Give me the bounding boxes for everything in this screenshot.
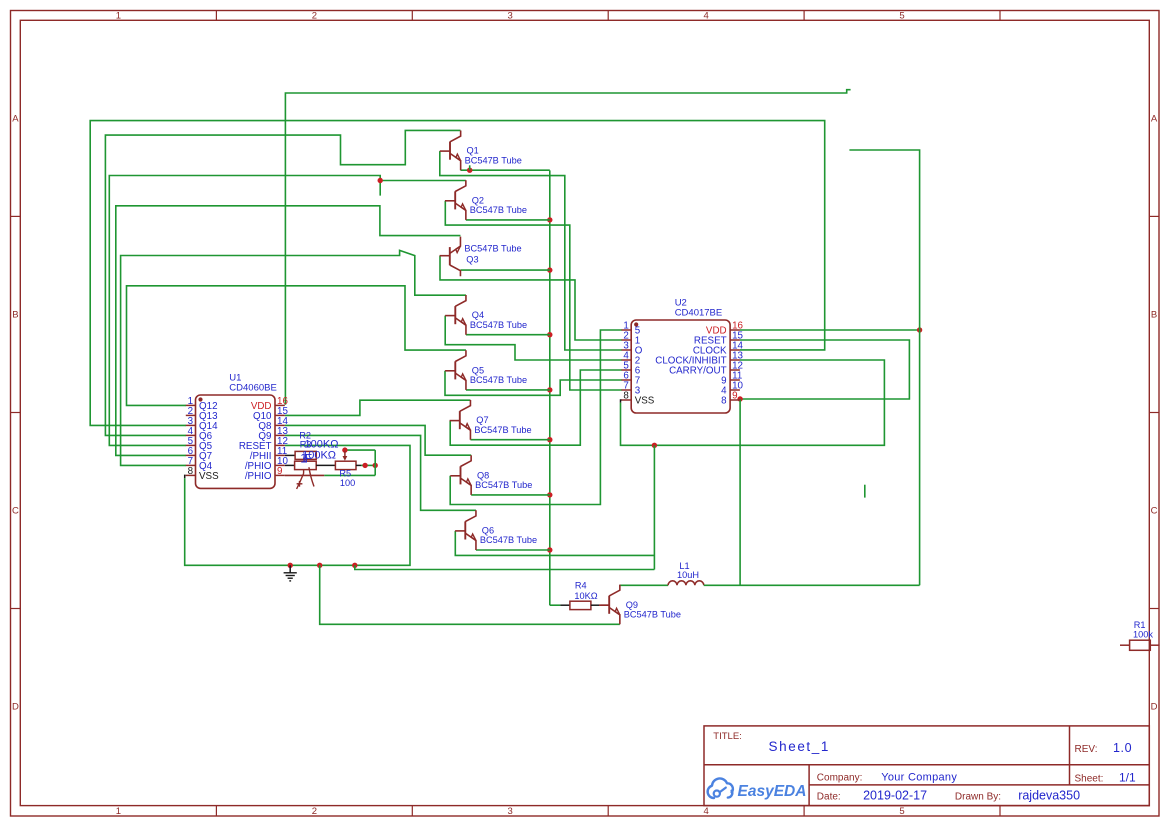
svg-text:Sheet:: Sheet: <box>1075 774 1104 785</box>
svg-text:4: 4 <box>704 806 709 817</box>
svg-text:BC547B Tube: BC547B Tube <box>475 480 532 490</box>
svg-text:BC547B Tube: BC547B Tube <box>464 244 521 254</box>
svg-text:BC547B Tube: BC547B Tube <box>470 375 527 385</box>
svg-text:BC547B Tube: BC547B Tube <box>480 535 537 545</box>
svg-text:EasyEDA: EasyEDA <box>738 783 807 800</box>
svg-text:3: 3 <box>508 10 513 21</box>
svg-text:10KΩ: 10KΩ <box>574 591 597 601</box>
svg-text:R5: R5 <box>339 468 351 478</box>
svg-text:Date:: Date: <box>817 792 841 803</box>
svg-text:Q6: Q6 <box>482 526 494 536</box>
svg-text:Q9: Q9 <box>626 600 638 610</box>
svg-text:Company:: Company: <box>817 773 863 784</box>
svg-text:2: 2 <box>312 10 317 21</box>
svg-text:Q5: Q5 <box>472 365 484 375</box>
svg-text:/PHIO: /PHIO <box>245 471 272 482</box>
svg-text:F: F <box>305 451 312 465</box>
svg-text:BC547B Tube: BC547B Tube <box>465 155 522 165</box>
svg-text:8: 8 <box>721 396 727 407</box>
svg-text:D: D <box>1151 701 1158 712</box>
svg-text:BC547B Tube: BC547B Tube <box>470 320 527 330</box>
svg-text:BC547B Tube: BC547B Tube <box>474 425 531 435</box>
svg-text:5: 5 <box>899 806 904 817</box>
svg-text:10uH: 10uH <box>677 570 699 580</box>
svg-text:R4: R4 <box>575 580 587 590</box>
svg-text:2019-02-17: 2019-02-17 <box>863 789 927 803</box>
svg-text:BC547B Tube: BC547B Tube <box>470 205 527 215</box>
svg-text:Your Company: Your Company <box>881 772 957 784</box>
svg-text:Q3: Q3 <box>466 255 478 265</box>
svg-text:Q2: Q2 <box>472 195 484 205</box>
svg-text:A: A <box>12 113 19 124</box>
svg-text:CARRY/OUT: CARRY/OUT <box>669 366 727 377</box>
svg-text:8: 8 <box>623 390 629 401</box>
svg-text:4: 4 <box>704 10 709 21</box>
svg-text:A: A <box>1151 113 1158 124</box>
svg-text:Q1: Q1 <box>467 146 479 156</box>
svg-text:2: 2 <box>312 806 317 817</box>
svg-text:B: B <box>1151 310 1157 321</box>
svg-text:9: 9 <box>732 390 737 401</box>
svg-text:C: C <box>12 506 19 517</box>
svg-text:TITLE:: TITLE: <box>713 731 742 742</box>
svg-text:C: C <box>1151 506 1158 517</box>
svg-text:3: 3 <box>508 806 513 817</box>
svg-text:VSS: VSS <box>635 396 655 407</box>
svg-text:8: 8 <box>188 466 194 477</box>
svg-text:CD4060BE: CD4060BE <box>229 383 277 394</box>
svg-text:1: 1 <box>116 10 121 21</box>
svg-text:Q8: Q8 <box>477 470 489 480</box>
svg-text:5: 5 <box>899 10 904 21</box>
svg-text:R3: R3 <box>300 439 312 449</box>
svg-text:Drawn By:: Drawn By: <box>955 792 1001 803</box>
svg-text:1/1: 1/1 <box>1119 771 1136 785</box>
svg-text:1.0: 1.0 <box>1113 741 1132 755</box>
svg-text:9: 9 <box>277 466 282 477</box>
svg-text:Sheet_1: Sheet_1 <box>769 739 831 754</box>
svg-text:100: 100 <box>340 478 355 488</box>
svg-text:R1: R1 <box>1134 620 1146 630</box>
svg-text:rajdeva350: rajdeva350 <box>1018 789 1080 803</box>
svg-text:100k: 100k <box>1133 630 1153 640</box>
svg-text:REV:: REV: <box>1075 744 1098 755</box>
svg-text:1: 1 <box>116 806 121 817</box>
svg-text:VSS: VSS <box>199 471 219 482</box>
svg-text:B: B <box>12 310 18 321</box>
svg-text:D: D <box>12 701 19 712</box>
svg-text:BC547B Tube: BC547B Tube <box>624 609 681 619</box>
svg-text:Q4: Q4 <box>472 310 484 320</box>
svg-text:CD4017BE: CD4017BE <box>675 308 723 319</box>
svg-text:Q7: Q7 <box>476 415 488 425</box>
